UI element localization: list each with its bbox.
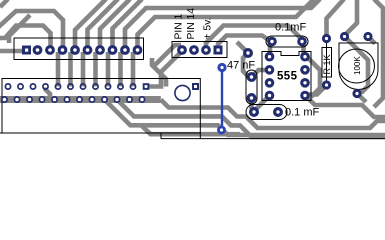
svg-text:R 1K: R 1K — [322, 54, 332, 74]
svg-text:555: 555 — [277, 71, 298, 83]
svg-text:0.1 mF: 0.1 mF — [285, 107, 320, 119]
svg-text:+ 5v.: + 5v. — [203, 18, 214, 40]
svg-text:0.1mF: 0.1mF — [275, 22, 306, 34]
svg-text:47 nF: 47 nF — [227, 60, 255, 72]
svg-text:100K: 100K — [353, 56, 362, 75]
svg-text:PIN 14: PIN 14 — [186, 8, 197, 40]
svg-text:PIN 1: PIN 1 — [174, 13, 185, 39]
